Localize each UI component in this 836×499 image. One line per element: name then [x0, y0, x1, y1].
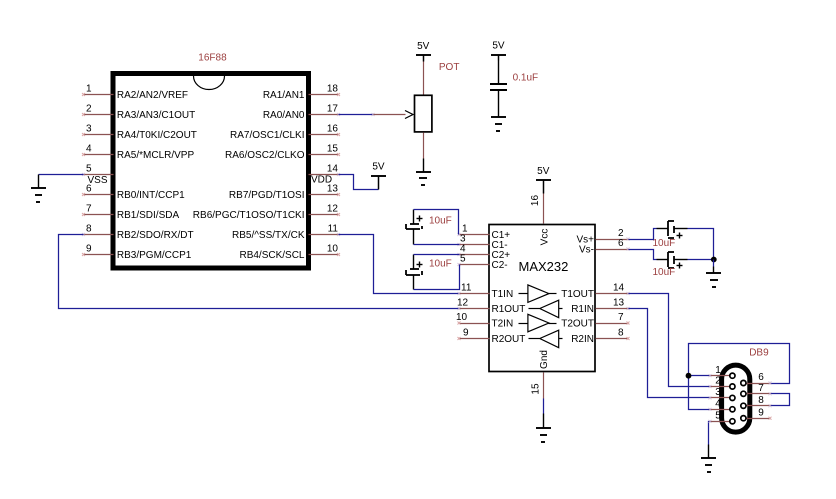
U1 pin 16 (RA7/OSC1/CLKI) — [230, 123, 340, 141]
svg-text:3: 3 — [86, 123, 92, 134]
svg-text:5: 5 — [715, 411, 721, 422]
svg-text:8: 8 — [618, 327, 624, 338]
J1 pin 6 — [741, 372, 772, 385]
svg-text:8: 8 — [86, 223, 92, 234]
U2 pin 1 (C1+) — [458, 223, 511, 241]
power 5V (VDD) — [371, 161, 386, 189]
U2 pin 6 (Vs-) — [579, 238, 630, 256]
ground (POT) — [416, 159, 431, 186]
svg-text:16F88: 16F88 — [198, 53, 227, 64]
ground (0.1uF cap) — [491, 117, 506, 131]
J1 pin 7 — [741, 383, 772, 396]
svg-text:RA1/AN1: RA1/AN1 — [263, 90, 305, 101]
svg-text:VDD: VDD — [311, 175, 332, 186]
wire VSS to ground — [39, 174, 84, 176]
wire U2 Vs- to C4 — [629, 250, 657, 260]
svg-text:6: 6 — [758, 372, 764, 383]
svg-text:16: 16 — [530, 195, 541, 207]
wire VDD to 5V — [339, 175, 379, 190]
U2 pin 16 (Vcc) — [530, 194, 551, 246]
U2 pin 15 (Gnd) — [530, 350, 550, 398]
svg-text:RA0/AN0: RA0/AN0 — [263, 110, 305, 121]
svg-text:RB7/PGD/T1OSI: RB7/PGD/T1OSI — [229, 190, 305, 201]
U1 pin 15 (RA6/OSC2/CLKO) — [225, 143, 340, 161]
svg-text:RB0/INT/CCP1: RB0/INT/CCP1 — [117, 190, 185, 201]
svg-text:VSS: VSS — [88, 175, 108, 186]
U1 pin 8 (RB2/SDO/RX/DT) — [82, 223, 194, 241]
svg-text:RA2/AN2/VREF: RA2/AN2/VREF — [117, 90, 188, 101]
svg-text:2: 2 — [715, 376, 721, 387]
svg-text:RA3/AN3/C1OUT: RA3/AN3/C1OUT — [117, 110, 195, 121]
J1 pin 2 — [709, 376, 736, 389]
svg-text:T1IN: T1IN — [492, 289, 514, 300]
wire C2 bottom to U2 C2- — [414, 265, 460, 290]
svg-text:0.1uF: 0.1uF — [513, 73, 539, 84]
junction (DB9 pin1 net) — [686, 373, 692, 379]
wire C4 to ground junction — [688, 259, 714, 261]
U2 pin 4 (C2+) — [458, 243, 511, 261]
microcontroller U1 16F88 body — [113, 74, 309, 269]
svg-text:15: 15 — [530, 383, 541, 395]
connector J1 DB9 body — [722, 365, 750, 432]
power 5V (POT top) — [416, 41, 431, 62]
capacitor 0.1uF — [490, 61, 507, 118]
wire Gnd pin to ground — [543, 399, 545, 414]
U1 pin 7 (RB1/SDI/SDA) — [82, 203, 179, 221]
svg-text:14: 14 — [327, 163, 339, 174]
svg-text:RB4/SCK/SCL: RB4/SCK/SCL — [239, 250, 304, 261]
buffer T2 — [519, 314, 557, 332]
svg-text:Gnd: Gnd — [539, 350, 550, 369]
svg-text:MAX232: MAX232 — [519, 259, 569, 274]
capacitor C1 10uF — [406, 210, 423, 245]
svg-text:17: 17 — [327, 103, 339, 114]
svg-text:10: 10 — [456, 312, 468, 323]
svg-text:7: 7 — [618, 312, 624, 323]
svg-text:RB3/PGM/CCP1: RB3/PGM/CCP1 — [117, 250, 192, 261]
svg-text:T1OUT: T1OUT — [561, 289, 594, 300]
net DB9 7-8 loop — [771, 394, 790, 406]
svg-text:7: 7 — [758, 383, 764, 394]
U2 pin 9 (R2OUT) — [458, 327, 526, 345]
svg-text:9: 9 — [86, 243, 92, 254]
J1 pin 3 — [709, 387, 736, 400]
U1 pin 2 (RA3/AN3/C1OUT) — [82, 103, 195, 121]
svg-text:9: 9 — [758, 407, 764, 418]
ground (charge pump caps) — [706, 267, 721, 288]
U1 pin 10 (RB4/SCK/SCL) — [239, 243, 340, 261]
ic U2 MAX232 body — [489, 225, 595, 372]
wire 5V to POT — [423, 62, 425, 95]
svg-text:11: 11 — [328, 223, 339, 234]
wire C3 to ground junction — [688, 229, 714, 260]
svg-text:R2OUT: R2OUT — [492, 334, 526, 345]
U2 pin 11 (T1IN) — [458, 282, 514, 300]
wire RB5/TX to MAX232 T1IN — [339, 235, 460, 294]
U2 pin 13 (R1IN) — [571, 297, 629, 315]
svg-text:8: 8 — [758, 395, 764, 406]
capacitor C3 10uF — [657, 221, 688, 239]
U1 pin 1 (RA2/AN2/VREF) — [82, 83, 188, 101]
U2 pin 10 (T2IN) — [456, 312, 513, 330]
svg-text:5V: 5V — [492, 41, 505, 52]
svg-text:RA4/T0KI/C2OUT: RA4/T0KI/C2OUT — [117, 130, 197, 141]
svg-text:5V: 5V — [537, 166, 550, 177]
svg-text:RA7/OSC1/CLKI: RA7/OSC1/CLKI — [230, 130, 304, 141]
U1 pin 4 (RA5/*MCLR/VPP) — [82, 143, 194, 161]
wire C2 top to U2 C2+ — [414, 254, 460, 256]
buffer R2 — [529, 330, 563, 348]
svg-text:Vcc: Vcc — [540, 229, 551, 246]
svg-text:5V: 5V — [417, 41, 430, 52]
U2 pin 14 (T1OUT) — [561, 282, 629, 300]
svg-text:16: 16 — [327, 123, 339, 134]
svg-text:RB5/^SS/TX/CK: RB5/^SS/TX/CK — [232, 230, 305, 241]
U2 pin 8 (R2IN) — [571, 327, 629, 345]
J1 pin 8 — [741, 395, 772, 408]
svg-text:11: 11 — [461, 282, 472, 293]
svg-text:Vs-: Vs- — [579, 245, 594, 256]
capacitor C2 10uF — [406, 255, 423, 290]
svg-text:10uF: 10uF — [653, 238, 676, 249]
svg-text:5: 5 — [460, 253, 466, 264]
svg-text:T2OUT: T2OUT — [561, 319, 594, 330]
svg-text:R1OUT: R1OUT — [492, 304, 526, 315]
ground (VSS) — [31, 175, 46, 203]
J1 pin 4 — [709, 399, 736, 412]
U2 pin 3 (C1-) — [458, 233, 508, 251]
svg-text:1: 1 — [86, 83, 92, 94]
U1 pin 3 (RA4/T0KI/C2OUT) — [82, 123, 197, 141]
ground (DB9 pin5) — [701, 445, 716, 473]
J1 pin 9 — [741, 407, 772, 420]
svg-text:1: 1 — [715, 365, 721, 376]
svg-text:RB2/SDO/RX/DT: RB2/SDO/RX/DT — [117, 230, 194, 241]
U2 pin 12 (R1OUT) — [457, 297, 525, 315]
svg-text:POT: POT — [439, 62, 460, 73]
wire DB9 pin4 tie — [689, 376, 711, 410]
power 5V (0.1uF cap) — [491, 41, 506, 61]
U1 pin 18 (RA1/AN1) — [263, 83, 340, 101]
svg-text:R1IN: R1IN — [571, 304, 594, 315]
potentiometer POT body — [415, 95, 432, 132]
svg-text:5V: 5V — [372, 161, 385, 172]
svg-text:4: 4 — [715, 399, 721, 410]
net DB9 1-4-6 loop — [689, 344, 790, 384]
wire C1 bottom to U2 C1- — [414, 244, 460, 246]
svg-text:9: 9 — [463, 327, 469, 338]
power 5V (MAX232 Vcc) — [536, 166, 551, 193]
svg-text:C2-: C2- — [492, 260, 508, 271]
wire T1OUT to DB9 pin2 — [629, 294, 711, 387]
buffer R1 — [529, 300, 563, 318]
J1 pin 5 — [709, 411, 736, 424]
wire junction to ground — [713, 260, 715, 267]
wire RB2/RX to MAX232 R1OUT — [59, 235, 460, 309]
U1 pin 5 (VSS) — [82, 163, 114, 176]
svg-text:RB1/SDI/SDA: RB1/SDI/SDA — [117, 210, 180, 221]
svg-text:7: 7 — [86, 203, 92, 214]
svg-text:6: 6 — [618, 238, 624, 249]
wire POT to ground — [423, 133, 425, 159]
svg-text:12: 12 — [327, 203, 339, 214]
U1 pin 9 (RB3/PGM/CCP1) — [82, 243, 192, 261]
svg-text:14: 14 — [613, 282, 625, 293]
wire R1IN to DB9 pin3 — [629, 309, 711, 398]
svg-text:RB6/PGC/T1OSO/T1CKI: RB6/PGC/T1OSO/T1CKI — [193, 210, 305, 221]
svg-text:RA5/*MCLR/VPP: RA5/*MCLR/VPP — [117, 150, 195, 161]
U1 pin 13 (RB7/PGD/T1OSI) — [229, 183, 340, 201]
wire DB9 pin5 to ground — [709, 422, 711, 445]
capacitor C4 10uF — [657, 252, 688, 269]
svg-text:10: 10 — [327, 243, 339, 254]
wire RA0/AN0 to POT wiper — [339, 114, 374, 116]
U1 pin 11 (RB5/^SS/TX/CK) — [232, 223, 340, 241]
svg-text:13: 13 — [613, 297, 625, 308]
svg-text:10uF: 10uF — [429, 259, 452, 270]
svg-text:R2IN: R2IN — [571, 334, 594, 345]
U1 pin 6 (RB0/INT/CCP1) — [82, 183, 185, 201]
wire C1 top to U2 C1+ — [414, 210, 459, 235]
U1 pin 17 (RA0/AN0) — [263, 103, 340, 121]
U1 pin 12 (RB6/PGC/T1OSO/T1CKI) — [193, 203, 340, 221]
svg-text:DB9: DB9 — [749, 347, 769, 358]
U1 pin 14 (VDD) — [309, 163, 341, 176]
svg-text:4: 4 — [86, 143, 92, 154]
junction (caps to ground) — [711, 257, 717, 263]
potentiometer POT wiper arrow — [374, 111, 414, 119]
svg-text:2: 2 — [86, 103, 92, 114]
svg-text:5: 5 — [86, 163, 92, 174]
buffer T1 — [519, 285, 557, 303]
U2 pin 7 (T2OUT) — [561, 312, 629, 330]
wire U2 Vs+ to C3 — [629, 229, 657, 240]
svg-text:12: 12 — [457, 297, 469, 308]
svg-text:3: 3 — [715, 387, 721, 398]
U2 pin 2 (Vs+) — [576, 228, 629, 246]
svg-text:18: 18 — [327, 83, 339, 94]
svg-text:15: 15 — [327, 143, 339, 154]
ground (MAX232) — [536, 414, 551, 443]
svg-text:RA6/OSC2/CLKO: RA6/OSC2/CLKO — [225, 150, 305, 161]
svg-text:10uF: 10uF — [653, 267, 676, 278]
svg-text:T2IN: T2IN — [492, 319, 514, 330]
U2 pin 5 (C2-) — [458, 253, 508, 271]
J1 pin 1 — [709, 365, 736, 378]
svg-text:10uF: 10uF — [429, 215, 452, 226]
